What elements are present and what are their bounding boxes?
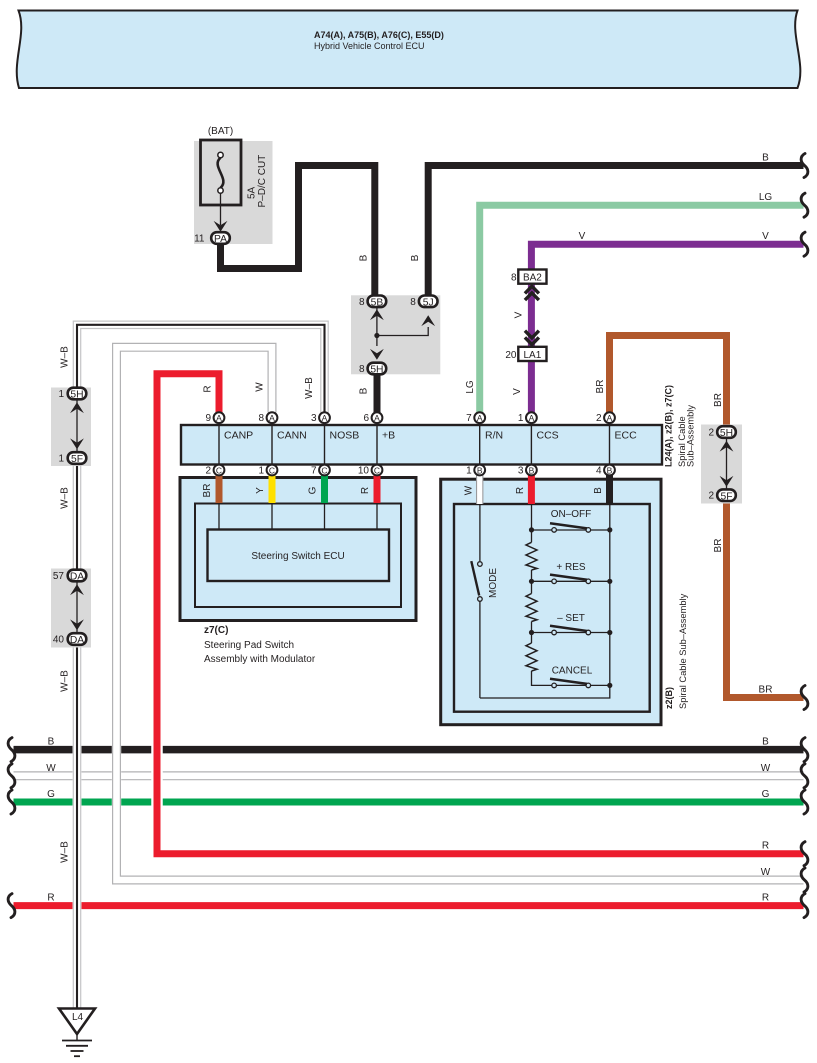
ECU pin 2 C (205, 465, 224, 477)
wire stub G to steering box (321, 470, 328, 503)
svg-text:57: 57 (53, 571, 65, 582)
svg-text:W–B: W–B (60, 841, 71, 863)
svg-text:B: B (762, 153, 769, 164)
svg-text:V: V (512, 388, 523, 395)
svg-text:W: W (255, 382, 266, 392)
svg-text:A74(A), A75(B), A76(C), E55(D): A74(A), A75(B), A76(C), E55(D) (314, 30, 444, 40)
svg-text:– SET: – SET (557, 613, 585, 624)
ECU pin 1 C (258, 465, 277, 477)
svg-text:Steering Pad Switch: Steering Pad Switch (204, 640, 294, 651)
svg-text:A: A (374, 413, 380, 423)
svg-text:1: 1 (58, 389, 64, 400)
wire LG: from R/N pin up and to right edge (480, 205, 804, 412)
svg-text:5H: 5H (370, 365, 383, 376)
svg-text:Steering Switch ECU: Steering Switch ECU (251, 551, 344, 562)
wire W-B: left vertical run with hook to NOSB pin and down to ground (77, 325, 325, 1011)
svg-text:B: B (607, 465, 613, 475)
svg-text:5B: 5B (371, 297, 384, 308)
ECU pin 8 A (258, 412, 277, 424)
svg-text:ON–OFF: ON–OFF (551, 509, 592, 520)
svg-text:+B: +B (382, 430, 395, 442)
svg-text:40: 40 (53, 635, 65, 646)
svg-text:10: 10 (358, 465, 370, 476)
svg-text:LG: LG (759, 192, 773, 203)
wire stub R to steering box (374, 470, 381, 503)
svg-text:2: 2 (596, 413, 602, 424)
svg-text:A: A (529, 413, 535, 423)
wire break squiggles right edge (801, 154, 808, 918)
svg-text:2: 2 (708, 491, 714, 502)
svg-text:C: C (216, 465, 222, 475)
svg-text:W–B: W–B (60, 670, 71, 692)
svg-text:W–B: W–B (60, 487, 71, 509)
svg-text:B: B (529, 465, 535, 475)
svg-text:5J: 5J (423, 297, 434, 308)
svg-text:L4: L4 (72, 1012, 84, 1023)
wire W: hook from CANN pin down-left and to right edge (117, 347, 804, 880)
svg-text:2: 2 (205, 465, 211, 476)
svg-text:5F: 5F (71, 454, 83, 465)
svg-text:BR: BR (759, 685, 773, 696)
svg-text:Sub–Assembly: Sub–Assembly (686, 405, 696, 467)
wire break squiggles left edge (8, 738, 15, 918)
svg-text:ECC: ECC (615, 430, 638, 442)
svg-text:W: W (761, 867, 771, 878)
svg-text:R: R (47, 893, 54, 904)
svg-text:6: 6 (363, 413, 369, 424)
ECU pin 2 A (596, 412, 615, 424)
svg-text:G: G (308, 486, 319, 494)
svg-text:V: V (762, 231, 769, 242)
svg-text:G: G (762, 789, 770, 800)
svg-text:CANN: CANN (277, 430, 307, 442)
ECU pin 6 A (363, 412, 382, 424)
svg-text:+ RES: + RES (556, 562, 586, 573)
svg-text:W: W (761, 763, 771, 774)
svg-text:z2(B): z2(B) (664, 687, 674, 709)
svg-text:B: B (762, 737, 769, 748)
svg-text:Hybrid Vehicle Control ECU: Hybrid Vehicle Control ECU (314, 41, 425, 51)
wire BR: from ECC pin up and right to 5H (610, 336, 727, 433)
wire stub B to spiral cable box (606, 470, 613, 504)
ECU pin 3 A (311, 412, 330, 424)
wire W horizontal bottom (full width) (14, 771, 804, 780)
connector pair 5H/5F on right BR wire (701, 425, 742, 504)
svg-text:W: W (46, 763, 56, 774)
svg-text:8: 8 (359, 364, 365, 375)
svg-text:R: R (515, 487, 526, 494)
spiral cable sub-assembly box z2(B) (441, 479, 661, 725)
svg-text:B: B (410, 254, 421, 261)
wire stub R to spiral cable box (528, 470, 535, 504)
ECU pin 9 A (205, 412, 224, 424)
svg-text:7: 7 (311, 465, 317, 476)
ECU connector strip (181, 425, 662, 465)
svg-text:MODE: MODE (488, 568, 499, 598)
svg-text:R: R (360, 487, 371, 494)
svg-text:LA1: LA1 (524, 350, 542, 361)
svg-text:R: R (762, 841, 769, 852)
svg-text:DA: DA (70, 572, 84, 583)
svg-text:V: V (579, 231, 586, 242)
switch - SET (529, 613, 613, 635)
svg-text:B: B (593, 487, 604, 494)
wire harness banner: Hybrid Vehicle Control ECU (17, 11, 801, 89)
svg-text:Y: Y (255, 487, 266, 494)
svg-text:8: 8 (359, 297, 365, 308)
svg-text:4: 4 (596, 465, 602, 476)
switch CANCEL (550, 666, 612, 689)
svg-text:11: 11 (194, 234, 205, 245)
svg-text:R: R (762, 893, 769, 904)
svg-text:9: 9 (205, 413, 211, 424)
svg-text:C: C (269, 465, 275, 475)
connector pair 5H/5F on left W-B wire (51, 388, 91, 467)
svg-text:CANP: CANP (224, 430, 253, 442)
svg-text:B: B (359, 254, 370, 261)
ECU pin 1 B (466, 465, 485, 477)
ground L4 (59, 1009, 95, 1057)
svg-text:1: 1 (258, 465, 264, 476)
svg-text:DA: DA (70, 635, 84, 646)
resistor R3 (526, 643, 537, 671)
wire stub BR to steering box (216, 470, 223, 503)
label L24(A), z2(B), z7(C) Spiral Cable Sub-Assembly (664, 385, 696, 467)
switch MODE (471, 504, 499, 698)
svg-text:W: W (464, 485, 475, 495)
resistor R2 (526, 594, 537, 622)
svg-text:5H: 5H (70, 390, 83, 401)
wire G horizontal bottom (full width) (14, 799, 804, 806)
svg-text:5A: 5A (247, 186, 258, 199)
svg-text:(BAT): (BAT) (208, 126, 233, 137)
svg-text:BR: BR (713, 539, 724, 553)
wire stub Y to steering box (269, 470, 276, 503)
svg-text:5F: 5F (720, 491, 732, 502)
svg-text:PA: PA (214, 234, 227, 245)
svg-text:C: C (321, 465, 327, 475)
svg-text:2: 2 (708, 428, 714, 439)
svg-text:G: G (47, 789, 55, 800)
svg-text:1: 1 (466, 465, 472, 476)
svg-text:1: 1 (518, 413, 524, 424)
svg-text:8: 8 (258, 413, 264, 424)
svg-text:B: B (359, 387, 370, 394)
svg-text:3: 3 (311, 413, 317, 424)
svg-text:Spiral Cable Sub–Assembly: Spiral Cable Sub–Assembly (678, 593, 688, 709)
svg-text:5H: 5H (720, 428, 733, 439)
ECU pin 10 C (358, 465, 383, 477)
svg-text:BA2: BA2 (523, 273, 542, 284)
svg-text:P–D/C CUT: P–D/C CUT (257, 155, 268, 208)
svg-text:BR: BR (713, 393, 724, 407)
svg-text:8: 8 (511, 273, 517, 284)
wire BR: from 5F down and to right edge (727, 495, 804, 698)
ECU pin 1 A (518, 412, 537, 424)
switch ON-OFF (529, 509, 613, 533)
ECU pin 4 B (596, 465, 615, 477)
steering pad switch assembly box z7(C) (180, 478, 416, 621)
ECU pin 3 B (518, 465, 537, 477)
wire V: from CCS pin up through LA1/BA2 and to right edge (531, 244, 803, 412)
svg-text:R/N: R/N (485, 430, 503, 442)
svg-text:A: A (269, 413, 275, 423)
wire B: from 5J up and to right edge (428, 166, 803, 298)
ECU pin 7 C (311, 465, 330, 477)
svg-text:A: A (607, 413, 613, 423)
svg-text:z7(C): z7(C) (204, 625, 228, 636)
svg-text:20: 20 (505, 350, 517, 361)
svg-text:LG: LG (465, 380, 476, 394)
switch + RES (529, 562, 613, 584)
svg-text:R: R (203, 385, 214, 392)
svg-text:CCS: CCS (537, 430, 559, 442)
label z7(C) Steering Pad Switch (204, 625, 316, 665)
wire B horizontal bottom (full width) (14, 746, 804, 754)
svg-text:CANCEL: CANCEL (552, 666, 593, 677)
wire color labels (46, 153, 772, 904)
svg-text:B: B (477, 465, 483, 475)
resistor ladder center line (532, 504, 552, 685)
svg-text:BR: BR (595, 380, 606, 394)
svg-text:BR: BR (202, 484, 213, 498)
svg-text:A: A (477, 413, 483, 423)
svg-text:W–B: W–B (60, 346, 71, 368)
fuse 5A P-D/C CUT (194, 126, 273, 245)
svg-text:8: 8 (410, 297, 416, 308)
wire stub W to spiral cable box (476, 470, 483, 504)
wire B: from 5H down to +B pin (374, 373, 381, 413)
ECU pin 7 A (466, 412, 485, 424)
svg-text:A: A (322, 413, 328, 423)
svg-text:V: V (514, 311, 525, 318)
resistor R1 (526, 542, 537, 570)
svg-text:L24(A), z2(B), z7(C): L24(A), z2(B), z7(C) (664, 385, 674, 467)
junction block 5B/5J/5H (351, 295, 440, 375)
svg-text:3: 3 (518, 465, 524, 476)
svg-text:A: A (216, 413, 222, 423)
svg-text:W–B: W–B (304, 377, 315, 399)
svg-text:7: 7 (466, 413, 472, 424)
connector BA2 (511, 270, 547, 301)
svg-text:C: C (374, 465, 380, 475)
svg-text:1: 1 (58, 454, 64, 465)
wire R: hook from CANP pin down-left and to right edge (157, 374, 804, 854)
connector pair DA/DA on left W-B wire (51, 569, 91, 648)
svg-text:B: B (48, 737, 55, 748)
wire R horizontal bottom (full width) (14, 902, 804, 909)
connector LA1 (505, 331, 546, 361)
right bus line in spiral cable box (480, 504, 610, 698)
wire B: from fuse PA to junction 5B (221, 166, 375, 298)
label z2(B) Spiral Cable Sub-Assembly (664, 593, 688, 709)
svg-text:NOSB: NOSB (330, 430, 360, 442)
svg-text:Assembly with Modulator: Assembly with Modulator (204, 654, 316, 665)
